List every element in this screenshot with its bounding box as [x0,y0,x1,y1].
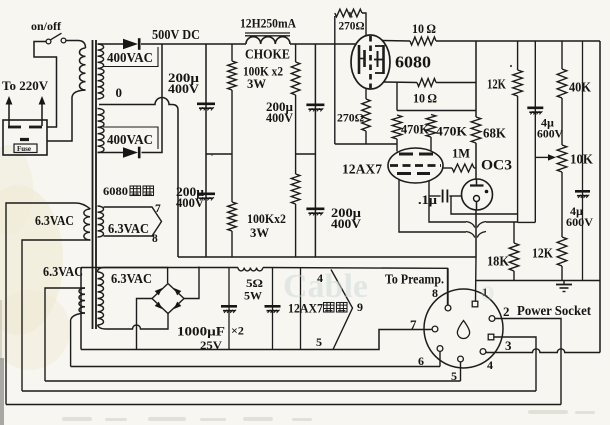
heater box left edge [80,268,82,350]
tube V1 heater dashed [369,36,372,88]
wire cathode to output node [436,82,476,84]
wire switch to primary top [66,41,86,49]
svg-text:500V DC: 500V DC [152,28,200,43]
svg-text:400V: 400V [168,82,199,96]
svg-text:8: 8 [432,286,438,300]
transformer T1 primary winding [79,48,85,90]
svg-text:270Ω: 270Ω [337,111,364,125]
svg-text:6.3VAC: 6.3VAC [43,264,83,279]
edge smudge [0,358,4,425]
svg-text:18K: 18K [487,254,509,269]
svg-text:12AX7: 12AX7 [342,163,382,178]
svg-text:470K: 470K [436,125,467,139]
svg-text:2: 2 [503,304,510,319]
resistor R10 470K [392,115,402,152]
fuse plug box [3,120,47,155]
transformer core [93,40,97,329]
line C7 4u600V [575,41,590,281]
line C6 4u600V [527,41,543,222]
svg-text:400V: 400V [266,111,293,125]
svg-text:6.3VAC: 6.3VAC [111,271,152,286]
resistor R14 5ohm 5W [238,268,263,271]
wire preamp heater bottom [22,240,91,391]
svg-text:270Ω: 270Ω [339,19,365,33]
divider top wire [397,83,476,111]
svg-text:6.3VAC: 6.3VAC [35,213,74,228]
tube V1 left electrodes [359,45,365,74]
tube V2 plates dashes [399,153,433,156]
wire preamp heater top [6,203,91,405]
HV secondary winding lower 400VAC [98,109,105,153]
connector chevron 12AX7 heater [331,270,353,350]
svg-text:7: 7 [410,317,417,332]
wire mid drop [300,268,302,350]
svg-text:4: 4 [487,358,493,372]
svg-text:6080: 6080 [395,53,431,72]
wire pin2 [495,319,561,405]
svg-text:7: 7 [155,203,161,215]
wire lower-left top [45,288,85,381]
resistor R7 10ohm [417,79,436,87]
svg-text:10 Ω: 10 Ω [413,92,437,106]
pot wiper arrow [535,156,550,158]
tube V3 dot [485,190,489,194]
wire V1 top cathode [382,40,410,43]
wire HV top to diode [98,43,124,45]
resistor R5 270ohm grid1 [335,9,366,144]
svg-text:1000µF: 1000µF [177,325,225,339]
mains arrow left [8,103,10,126]
svg-text:10K: 10K [570,152,593,167]
svg-text:100Kx2: 100Kx2 [247,212,286,226]
box 400VAC upper [103,47,158,67]
wire HV bottom to diode [98,152,124,154]
svg-text:.1µ: .1µ [418,192,438,207]
bleeder line R1 R2 [228,44,237,257]
svg-text:3W: 3W [247,77,267,91]
switch S1 contacts [46,33,66,44]
box 6.3VAC rectifier [98,268,168,284]
svg-text:OC3: OC3 [481,158,512,174]
flag 6.3VAC 6080 [104,207,162,236]
tube V2 12AX7 envelope [388,148,443,183]
svg-text:1M: 1M [452,146,470,161]
filter line with C1 C2 [205,44,207,257]
tube V2 grid dashed [390,164,441,167]
capacitor C8 1000uF [221,268,237,350]
tube V1 right electrodes [374,45,384,74]
wire pin7 [431,328,433,331]
wire pin5 [460,362,462,381]
svg-text:12H250mA: 12H250mA [240,16,297,31]
resistor R12 1M [443,164,476,172]
wire 12AX7 cathode right [429,181,466,222]
resistor R11 470K [426,115,436,151]
winding 6.3VAC lower-left coil [79,288,85,313]
svg-text:10 Ω: 10 Ω [412,22,436,36]
socket circle [424,289,503,368]
right edge line [599,41,601,353]
wire bridge plus [184,267,199,299]
fuse plug contacts [8,127,42,140]
bottom scan noise [62,410,595,421]
socket pins 1-8 [432,301,495,362]
wire D2 to rail riser [142,44,163,153]
heater plus rail [81,267,238,269]
wire pin1 [475,257,476,301]
bridge rectifier diamond [152,284,184,314]
capacitor C2 200u 400V [197,194,215,201]
diode D2 [123,147,138,157]
wire merge to 18K node [486,221,518,223]
scan specks [350,12,353,18]
wire grid drive [335,143,397,145]
svg-text:o: o [480,274,495,307]
resistor R13 18K [509,222,519,281]
ground symbol [556,281,572,292]
wire pin4 with hops [486,349,600,353]
svg-text:400V: 400V [176,196,204,210]
svg-text:68K: 68K [483,126,506,141]
svg-text:3W: 3W [250,226,270,240]
wire switch to fuse plug [34,42,57,128]
capacitor C5 .1u [429,190,462,203]
brace merge lower [466,232,486,238]
svg-text:on/off: on/off [31,19,62,33]
box 400VAC lower [103,127,158,149]
node cap midpoint left [206,153,232,155]
svg-text:6.3VAC: 6.3VAC [108,221,149,236]
svg-text:8: 8 [152,233,158,245]
svg-text:600V: 600V [537,127,563,141]
fuse F1 [14,144,37,153]
capacitor C4 200u 400V [306,209,324,216]
heater bottom rail [81,330,431,350]
svg-text:×2: ×2 [231,324,244,338]
svg-text:3: 3 [505,338,512,353]
bus lower right [476,280,600,282]
bus 0V [178,256,476,258]
winding 6.3VAC preamp coil [84,209,90,240]
bus heater4 [6,404,561,406]
node cap midpoint right [296,153,316,155]
svg-text:600V: 600V [566,215,593,229]
wire OC3 bottom [475,210,477,257]
svg-text:Cable: Cable [283,268,368,305]
svg-text:5W: 5W [244,289,262,303]
capacitor C9 1000uF [265,268,281,350]
wire to preamp rail [263,268,448,306]
wire V1 bottom cathode [384,81,417,84]
paper stain left [0,185,63,335]
choke core bars [245,33,290,36]
brace merge upper [466,222,486,228]
wire rail right [436,40,600,42]
tube V3 anode [470,180,484,186]
wire lower-left bottom [71,313,85,367]
wire primary bottom to fuse plug [47,90,86,141]
svg-text:0: 0 [116,85,123,100]
tube V2 cathode dashes [397,172,430,175]
wire coil bottom to bridge AC with hop [98,314,169,329]
line 12K upper with zigzag [513,41,523,222]
svg-text:12K: 12K [532,246,553,261]
svg-text:6080: 6080 [103,184,128,198]
bus heater2 [45,380,461,382]
resistor R6 10ohm [410,37,436,45]
tube V3 OC3 envelope [462,179,493,210]
label socket 8 pin wire [447,268,449,305]
output line upper with R9 68K [471,41,481,180]
svg-text:400VAC: 400VAC [107,50,153,65]
HV secondary winding upper 400VAC [98,44,104,99]
wire center tap with hop [99,98,178,258]
svg-text:5: 5 [316,335,322,349]
winding 6.3VAC 6080 coil [98,206,104,237]
capacitor C1 200u 400V [197,104,215,111]
wire 12AX7 cathode left [399,180,466,233]
diode D1 [123,39,138,49]
tube V3 cathode [474,196,480,211]
divider line 40K 10K 12K [557,41,567,281]
bleeder line R3 R4 [291,44,300,257]
tube V1 6080 envelope [351,35,390,89]
wire C6 bottom tie [518,221,536,223]
wire pin3 [494,337,536,391]
bus heater1 [71,366,440,368]
wire bridge minus [137,299,153,350]
svg-text:40K: 40K [569,80,591,95]
choke L1 12H 250mA [246,37,290,44]
resistor R8 270ohm grid2 [362,89,370,145]
capacitor C3 200u 400V [306,105,324,112]
wire 500VDC rail [141,43,356,45]
svg-text:Power Socket: Power Socket [517,304,591,319]
svg-text:CHOKE: CHOKE [245,47,290,62]
socket key [457,321,469,339]
wire cap junction drop [451,196,518,214]
svg-text:400V: 400V [331,217,361,231]
svg-text:To 220V: To 220V [2,78,49,93]
filter line with C3 C4 [314,44,316,257]
svg-text:Fuse: Fuse [17,145,31,153]
winding 6.3VAC rectifier coil [98,272,104,325]
bus heater3 [22,390,536,392]
wire pin6 [439,351,441,366]
svg-text:400VAC: 400VAC [107,132,153,147]
bridge diode arrows [155,288,163,295]
svg-text:To Preamp.: To Preamp. [385,272,444,287]
mains arrow right [41,103,43,126]
svg-text:12K: 12K [487,77,506,92]
